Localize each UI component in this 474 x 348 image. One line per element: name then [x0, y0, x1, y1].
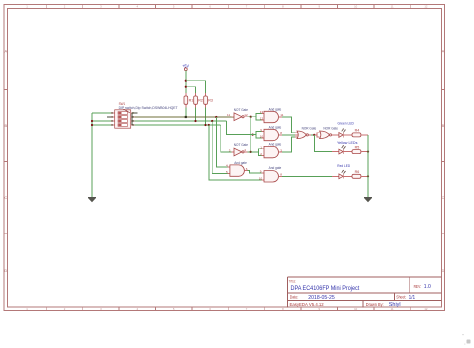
- svg-text:NOT Gate: NOT Gate: [234, 108, 248, 112]
- frame row letters right: [442, 49, 445, 274]
- node red-rail: [367, 175, 369, 177]
- wire SW1 left row3: [92, 120, 111, 122]
- svg-text:Yellow LEDs: Yellow LEDs: [337, 140, 357, 145]
- LED green: [335, 120, 355, 137]
- wire NOT1 out to AND1 inputs: [251, 113, 262, 116]
- svg-text:C: C: [442, 195, 445, 200]
- node NOT1 out: [250, 116, 252, 118]
- frame column ticks top: [46, 5, 410, 9]
- node B drop: [211, 120, 213, 122]
- svg-text:C: C: [4, 195, 7, 200]
- SW1 pins: [111, 113, 135, 125]
- node NOT2 out: [250, 151, 252, 153]
- wire AND5 out to red LED: [282, 175, 332, 177]
- svg-text:Date:: Date:: [290, 295, 299, 300]
- svg-text:REV:: REV:: [414, 284, 421, 289]
- svg-text:R1: R1: [189, 99, 194, 103]
- wire R1 to bus A: [185, 108, 187, 118]
- resistor R2: [194, 93, 203, 108]
- frame column numbers top: [26, 5, 428, 9]
- node yellow-rail: [367, 151, 369, 153]
- wire AND4 out to AND5 in1: [247, 171, 261, 173]
- frame row letters left: [4, 49, 7, 274]
- svg-text:12: 12: [260, 117, 264, 121]
- NOR gate U8: [295, 126, 316, 138]
- wire LED rail down: [367, 135, 369, 197]
- svg-text:11: 11: [391, 5, 394, 9]
- svg-text:And gate: And gate: [269, 125, 282, 129]
- frame row ticks left: [4, 89, 8, 233]
- wire B drop to AND4 in2: [212, 121, 227, 174]
- wire SW1 left row4: [92, 124, 111, 126]
- svg-text:D: D: [442, 268, 445, 273]
- AND gate U4: [260, 143, 282, 158]
- wire NOT2 out: [248, 151, 251, 153]
- svg-text:EasyEDA V5.4.12: EasyEDA V5.4.12: [290, 302, 325, 307]
- VCC symbol: [184, 68, 187, 71]
- svg-text:R2: R2: [198, 99, 203, 103]
- AND gate U6: [226, 161, 248, 176]
- resistor R5: [352, 145, 368, 153]
- svg-text:13: 13: [260, 110, 264, 114]
- bus wire C (net C): [135, 124, 221, 126]
- svg-text:NOR Gate: NOR Gate: [302, 126, 317, 130]
- svg-text:Drawn By:: Drawn By:: [366, 302, 384, 307]
- svg-text:NOT Gate: NOT Gate: [234, 143, 248, 147]
- resistor R4: [352, 129, 368, 137]
- wire AND2 out to NOR1 in2: [282, 134, 295, 136]
- resistor R3: [204, 93, 213, 108]
- node VCC-R3: [185, 80, 187, 82]
- svg-text:A: A: [442, 49, 445, 54]
- svg-text:NOR Gate: NOR Gate: [323, 126, 338, 130]
- wire AND3 out to NOR1 in3: [282, 137, 295, 152]
- svg-text:10: 10: [354, 5, 358, 9]
- wire SW1 left row1: [92, 112, 111, 114]
- wire to R2: [187, 87, 196, 93]
- wire left rail down: [91, 113, 93, 197]
- frame row ticks right: [442, 89, 445, 233]
- svg-text:1/1: 1/1: [409, 295, 416, 301]
- svg-text:A: A: [4, 49, 7, 54]
- svg-text:TITLE:: TITLE:: [289, 278, 296, 283]
- title block: [288, 277, 442, 308]
- wire R3 to bus C: [205, 108, 207, 126]
- NOR gate U9: [320, 126, 338, 138]
- wire node down to yellow row: [314, 135, 332, 152]
- LED red: [332, 163, 352, 179]
- svg-text:B: B: [442, 123, 445, 128]
- svg-text:10: 10: [260, 134, 264, 138]
- NOT gate U1: [227, 108, 248, 121]
- svg-text:And gate: And gate: [234, 161, 247, 165]
- bus wire B (net B): [135, 120, 227, 122]
- sheet frame inner border: [8, 9, 442, 308]
- LED yellow: [332, 140, 357, 154]
- wire bracket AND2 in2: [256, 135, 262, 138]
- node B-R2: [194, 120, 196, 122]
- frame column ticks bottom: [46, 307, 410, 311]
- svg-text:10: 10: [259, 177, 263, 181]
- wire C end to NOT2 input: [221, 125, 232, 152]
- wire to R3: [186, 81, 206, 93]
- svg-text:DIP switch,Dip Switch,DSWB04LH: DIP switch,Dip Switch,DSWB04LHQET: [119, 106, 179, 110]
- svg-text:10: 10: [354, 307, 358, 311]
- wire NOR1 out: [311, 134, 314, 136]
- node C drop: [208, 124, 210, 126]
- node C-R3: [204, 124, 206, 126]
- node NOR1 out: [313, 134, 315, 136]
- frame column numbers bottom: [26, 307, 428, 311]
- node A-R1: [185, 116, 187, 118]
- wire B end drop to AND2 node: [226, 121, 250, 135]
- AND gate U7: [259, 166, 282, 182]
- node left rail row3: [91, 120, 93, 122]
- wire VCC down: [185, 71, 187, 93]
- svg-text:R3: R3: [208, 99, 213, 103]
- svg-text:R6: R6: [355, 170, 360, 174]
- SW1 stub row2 left: [107, 116, 111, 118]
- SW1 stub row1 right: [132, 112, 138, 114]
- wire AND1 out to NOR1 in1: [282, 117, 295, 133]
- resistor R1: [184, 93, 193, 108]
- svg-text:2018-05-25: 2018-05-25: [308, 295, 334, 301]
- wire C drop to AND5 in2: [209, 125, 262, 180]
- svg-text:Shiyl: Shiyl: [389, 302, 401, 308]
- svg-text:And gate: And gate: [269, 166, 282, 170]
- wire bracket AND3 in2: [258, 152, 261, 155]
- svg-text:11: 11: [227, 113, 230, 117]
- svg-text:12: 12: [424, 5, 428, 9]
- NOT gate U5: [229, 143, 248, 156]
- svg-text:And gate: And gate: [269, 107, 282, 111]
- svg-text:Green LED: Green LED: [338, 120, 355, 125]
- bus wire A (net A): [135, 116, 235, 118]
- ground right: [364, 197, 372, 202]
- svg-text:Red LED: Red LED: [337, 163, 350, 168]
- svg-text:12: 12: [424, 307, 428, 311]
- SW1 pin junction marks: [111, 112, 133, 126]
- wire NOT1 out down to AND2 node: [250, 117, 252, 152]
- ground left: [88, 197, 96, 202]
- svg-text:Sheet:: Sheet:: [396, 295, 406, 300]
- node VCC-R2: [185, 86, 187, 88]
- svg-text:And gate: And gate: [269, 143, 282, 147]
- node AND2 feed: [252, 134, 254, 136]
- SW1 common bar right: [131, 113, 133, 125]
- wire NOT2 to AND3 in1: [251, 149, 262, 152]
- resistor R6: [352, 170, 368, 178]
- wire bracket AND1 in2: [256, 117, 262, 120]
- wire A drop to AND4 in1: [216, 117, 227, 167]
- svg-text:B: B: [4, 123, 7, 128]
- wire bracket NOR2 in2: [317, 135, 320, 137]
- AND gate U3: [260, 125, 283, 140]
- wire to AND2 inputs: [251, 132, 262, 135]
- node A drop: [215, 116, 217, 118]
- svg-text:1.0: 1.0: [424, 284, 431, 290]
- svg-text:R5: R5: [355, 145, 360, 149]
- AND gate U2: [260, 107, 284, 122]
- wire node to NOR2 inputs: [314, 133, 319, 135]
- faint page artifact: [462, 334, 471, 345]
- svg-text:D: D: [4, 268, 7, 273]
- svg-text:DPA EC4106FP Mini Project: DPA EC4106FP Mini Project: [291, 285, 360, 292]
- svg-text:12: 12: [244, 113, 248, 117]
- wire R2 to bus B: [195, 108, 197, 122]
- DIP switch SW1: [107, 102, 179, 128]
- wire NOT1 out: [248, 116, 251, 118]
- node left rail row4: [91, 124, 93, 126]
- svg-text:R4: R4: [355, 129, 360, 133]
